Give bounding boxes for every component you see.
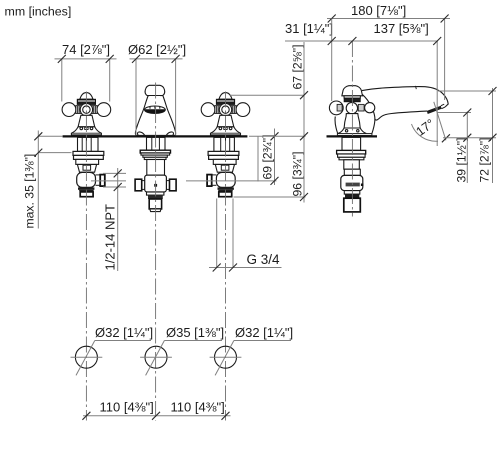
locknut ring 3 <box>143 155 167 157</box>
spout mouth <box>145 106 166 113</box>
locknut ring 4 <box>144 157 166 159</box>
spout arm top outline <box>362 87 448 107</box>
locknut ring 1 <box>140 150 170 153</box>
svg-text:Ø35 [1⅜"]: Ø35 [1⅜"] <box>166 325 224 340</box>
svg-text:96 [3¾"]: 96 [3¾"] <box>291 152 305 197</box>
svg-text:Ø32 [1¼"]: Ø32 [1¼"] <box>95 325 153 340</box>
bonnet bell <box>344 114 360 128</box>
handle cap (side) <box>342 86 363 96</box>
left valve (front view) <box>62 93 111 197</box>
dim 31 [1 1/4"] and 137 [5 3/8"] <box>285 19 441 147</box>
left outlet neck <box>142 180 145 182</box>
escutcheon flare (side) <box>339 128 366 135</box>
dim 74 [2 7/8"] handle width <box>55 42 117 102</box>
knurled stubs <box>337 104 342 111</box>
middle valve below deck (front view) <box>135 137 176 211</box>
svg-text:72 [2⅞"]: 72 [2⅞"] <box>478 138 492 183</box>
neck tube (side) <box>344 160 360 169</box>
handle cap rim <box>344 96 361 98</box>
spout dome cap <box>145 85 165 95</box>
dim Ø62 [2 1/2"] escutcheon diameter <box>128 42 186 135</box>
spout base plate (behind) <box>337 134 372 136</box>
svg-text:110 [4⅜"]: 110 [4⅜"] <box>100 400 154 415</box>
front ball <box>329 101 343 115</box>
body band <box>346 183 360 187</box>
svg-text:31 [1¼"]: 31 [1¼"] <box>285 21 333 36</box>
svg-text:69 [2¾"]: 69 [2¾"] <box>261 135 275 180</box>
svg-text:G 3/4: G 3/4 <box>247 252 281 267</box>
tail tube <box>149 199 161 209</box>
leader 1/2-14 NPT side outlet thread <box>103 168 127 271</box>
svg-text:Ø32 [1¼"]: Ø32 [1¼"] <box>235 325 293 340</box>
lower flange <box>147 192 164 195</box>
centerline side valve <box>351 41 353 217</box>
dim 39 [1 1/2"] aerator height <box>437 109 471 184</box>
deck line, front view <box>63 135 248 137</box>
dim 69 [2 3/4"] outlet depth <box>186 129 279 186</box>
flange ring 1 <box>337 150 366 154</box>
spout underside <box>375 111 427 120</box>
angle 17 degrees <box>412 102 450 143</box>
right outlet neck <box>166 180 169 182</box>
hole left Ø32 <box>71 325 154 375</box>
tee body <box>145 175 167 192</box>
leader G 3/4 tail thread <box>209 199 282 272</box>
hole right Ø32 <box>210 325 293 375</box>
shank tube <box>147 137 166 150</box>
foot curl left <box>137 132 144 135</box>
dim 96 [3 3/4"] total depth with 67 [2 5/8"] height above <box>230 42 308 203</box>
dim 180 [7 1/8"] total reach <box>327 3 450 100</box>
neck tube <box>147 160 165 176</box>
short link segment <box>257 136 259 181</box>
locknut ring 2 <box>141 153 170 155</box>
centerline right valve <box>225 92 227 421</box>
hub <box>346 102 357 113</box>
back ball <box>365 103 375 113</box>
centerline left valve <box>85 92 87 421</box>
svg-text:Ø62 [2½"]: Ø62 [2½"] <box>128 42 186 57</box>
tail tube (side) <box>344 198 361 212</box>
knurled nut (side) <box>345 194 359 198</box>
tail end chamfer <box>150 209 161 212</box>
svg-text:mm [inches]: mm [inches] <box>5 4 72 18</box>
svg-text:67 [2⅝"]: 67 [2⅝"] <box>291 45 305 90</box>
shank (side) <box>342 137 361 150</box>
spout bell left edge (behind escutcheon) <box>335 117 338 134</box>
spout bell body <box>135 96 175 136</box>
svg-text:1/2-14 NPT: 1/2-14 NPT <box>103 204 118 271</box>
deck line, side view <box>327 135 378 137</box>
right outlet cap <box>170 179 177 191</box>
spout, front view <box>135 85 175 135</box>
handle collar band (side) <box>344 98 360 102</box>
right valve (front view, mirrored) <box>201 93 250 197</box>
lower flange (side) <box>344 191 360 195</box>
left outlet cap <box>135 179 142 191</box>
seam tick on spout top <box>415 86 418 89</box>
svg-text:180 [7⅛"]: 180 [7⅛"] <box>351 3 406 18</box>
spout bell right edge / swan neck <box>362 95 374 134</box>
hole middle Ø35 <box>140 325 224 375</box>
center mark <box>154 184 157 187</box>
svg-text:max. 35 [1⅜"]: max. 35 [1⅜"] <box>23 154 37 229</box>
svg-text:110 [4⅜"]: 110 [4⅜"] <box>171 400 225 415</box>
neck tube 2 <box>344 169 360 175</box>
deck reference line to right <box>249 135 306 137</box>
centerline middle spout <box>155 83 157 421</box>
dim 72 [2 7/8"] spout height <box>438 87 497 183</box>
svg-text:39 [1½"]: 39 [1½"] <box>455 138 469 183</box>
foot curl right <box>166 132 173 135</box>
valve body (side) <box>341 175 363 190</box>
svg-text:137 [5⅜"]: 137 [5⅜"] <box>374 21 429 36</box>
svg-text:74 [2⅞"]: 74 [2⅞"] <box>62 42 110 57</box>
outlet centerline left valve <box>91 180 126 182</box>
flange ring 3 <box>339 157 364 160</box>
dim max. 35 [1 3/8"] deck thickness <box>23 131 72 229</box>
aerator band <box>427 106 442 114</box>
knurled nut <box>148 195 163 199</box>
flange ring 2 <box>338 154 366 157</box>
dim 110 [4 3/8"] hole spacing x2 <box>82 400 230 420</box>
